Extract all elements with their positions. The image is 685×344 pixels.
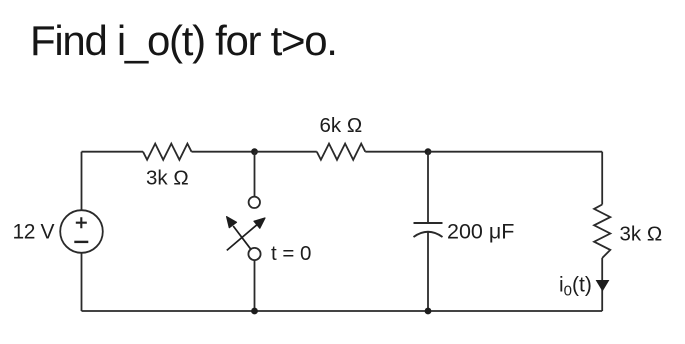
voltage source V1 (12 V) <box>60 210 103 253</box>
switch arrow up-left (blade motion) <box>233 226 251 249</box>
resistor R2 (6k ohm, top middle) <box>317 144 366 160</box>
switch arrow up-right (blade motion) <box>227 224 258 250</box>
wire: bottom rail <box>82 310 603 312</box>
wire: R1 to node A <box>192 151 255 153</box>
wire: right vertical top (top-right corner to resistor R3) <box>601 152 603 205</box>
capacitor C1 (200 uF) <box>414 152 443 311</box>
svg-text:200 μF: 200 μF <box>447 220 514 244</box>
wire: top-left segment (source top to resistor R1) <box>82 151 144 153</box>
svg-text:i0(t): i0(t) <box>559 274 592 300</box>
switch SW (opens at t = 0) <box>227 152 265 311</box>
svg-text:3k Ω: 3k Ω <box>620 223 663 246</box>
wire: left vertical bottom (source V1 to bottom-left corner) <box>81 253 83 311</box>
resistor R1 (3k ohm, top left) <box>143 144 192 160</box>
title text <box>30 17 337 64</box>
resistor R3 (3k ohm, right branch, vertical) <box>594 205 610 259</box>
wire: R3 to bottom-right corner <box>601 258 603 311</box>
svg-text:t = 0: t = 0 <box>271 242 311 265</box>
svg-text:12 V: 12 V <box>13 221 55 244</box>
current arrow i_o(t) (pointing down into bottom rail) <box>596 280 610 292</box>
wire: left vertical top (top-left corner down to source V1) <box>81 152 83 211</box>
node: switch bottom junction dot <box>251 308 258 315</box>
node B (junction dot, top of capacitor branch) <box>425 148 432 155</box>
node A (junction dot, top of switch branch) <box>251 148 258 155</box>
wire: node A down to switch top terminal <box>254 152 256 197</box>
svg-text:Find i_o(t) for t>o.: Find i_o(t) for t>o. <box>30 17 337 64</box>
svg-text:3k Ω: 3k Ω <box>146 167 189 190</box>
switch bottom terminal (open circle) <box>248 248 260 260</box>
capacitor top plate (straight) <box>414 222 443 224</box>
wire: capacitor bottom plate to bottom rail <box>427 232 429 311</box>
capacitor bottom plate (curved) <box>414 232 443 237</box>
wire: switch bottom terminal to bottom rail <box>254 260 256 311</box>
node: capacitor bottom junction dot <box>425 308 432 315</box>
wire: node B to top-right corner <box>428 151 602 153</box>
svg-text:6k Ω: 6k Ω <box>320 114 363 137</box>
wire: node B down to capacitor top plate <box>427 152 429 223</box>
wire: node A to resistor R2 <box>255 151 317 153</box>
switch top terminal (open circle) <box>249 197 260 208</box>
wire: R2 to node B <box>365 151 428 153</box>
